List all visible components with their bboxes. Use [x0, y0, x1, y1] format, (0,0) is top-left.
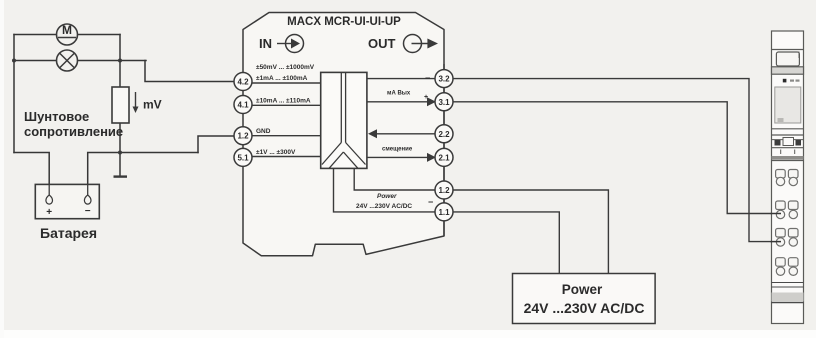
wire 4.2 to amp [252, 82, 321, 84]
terminal 1.2 input GND [234, 127, 252, 145]
wire stub into module row3 [771, 241, 782, 243]
module terminal row 4 [776, 258, 798, 276]
svg-text:4.1: 4.1 [237, 101, 249, 110]
wire left rail [13, 35, 15, 153]
svg-text:24V ...230V AC/DC: 24V ...230V AC/DC [524, 300, 645, 316]
module terminal row 1 [776, 170, 798, 186]
svg-text:3.2: 3.2 [438, 75, 450, 84]
module terminal row 3 [776, 229, 798, 247]
motor M [57, 23, 78, 45]
wire shunt to junction [119, 123, 121, 153]
svg-text:Power: Power [562, 282, 603, 297]
wire battery minus branch [88, 153, 198, 185]
svg-text:OUT: OUT [368, 36, 396, 51]
svg-text:Батарея: Батарея [40, 225, 97, 241]
svg-text:Шунтовое: Шунтовое [24, 109, 89, 124]
mV arrow [133, 92, 162, 113]
svg-text:−: − [425, 73, 430, 83]
wire amp power to 1.2 [354, 168, 435, 190]
svg-text:2.1: 2.1 [438, 153, 450, 162]
lamp [57, 50, 78, 71]
node C junction shunt-battery [118, 151, 122, 155]
svg-text:IN: IN [259, 36, 272, 51]
terminal 3.1 [435, 93, 453, 111]
OUT symbol [368, 35, 438, 53]
wire 3.1 to module [453, 102, 781, 214]
svg-text:+: + [424, 94, 428, 101]
wire amp power to 1.1 [334, 168, 436, 212]
wire amp to 3.2 [367, 78, 435, 80]
svg-text:смещение: смещение [382, 147, 413, 153]
wire 2.2 to amp with arrow [368, 129, 435, 138]
terminal 2.2 [435, 125, 453, 143]
svg-text:4.2: 4.2 [237, 78, 249, 87]
svg-text:5.1: 5.1 [237, 153, 249, 162]
wire stub into module row2 [771, 213, 782, 215]
wire 3.2 to module [453, 79, 781, 242]
svg-text:±1mA ... ±100mA: ±1mA ... ±100mA [256, 75, 308, 82]
node A junction lamp-rail [12, 59, 16, 63]
terminal 2.1 [435, 148, 453, 166]
wire 4.1 to amp [252, 104, 321, 106]
svg-text:сопротивление: сопротивление [24, 124, 123, 139]
wire vertical to shunt [119, 35, 121, 88]
LED dot on module [783, 79, 787, 83]
module foot [772, 283, 804, 303]
wire amp to 3.1 with arrow [367, 94, 436, 106]
wire motor top line [14, 34, 120, 36]
svg-text:−: − [85, 206, 91, 217]
wire GND to amp [252, 135, 321, 137]
terminal 5.1 [234, 148, 252, 166]
svg-text:±50mV ... ±1000mV: ±50mV ... ±1000mV [256, 64, 315, 71]
svg-text:1.2: 1.2 [237, 132, 249, 141]
power supply box [513, 274, 656, 324]
svg-text:Power: Power [377, 193, 397, 200]
ground bar [114, 175, 128, 177]
svg-text:1.1: 1.1 [438, 208, 450, 217]
svg-text:24V ...230V AC/DC: 24V ...230V AC/DC [356, 203, 412, 210]
svg-text:±10mA ... ±110mA: ±10mA ... ±110mA [256, 98, 311, 105]
node B junction lamp-shunt [118, 59, 122, 63]
DIN module side view [772, 31, 804, 324]
terminal 1.2 power [435, 181, 453, 199]
terminal 4.1 [234, 96, 252, 114]
svg-text:мА Вых: мА Вых [387, 91, 411, 97]
device outline MACX module [243, 13, 444, 256]
wire battery plus branch [14, 153, 49, 185]
wire lamp to terminal 4.2 [145, 61, 235, 82]
wire amp to 2.1 with arrow [367, 153, 436, 162]
wire 1.2 to power supply [453, 190, 608, 274]
terminal 4.2 [234, 73, 252, 91]
svg-text:GND: GND [256, 128, 271, 135]
wire 1.1 to power supply [453, 212, 559, 274]
IN symbol [259, 35, 304, 53]
wire up to GND terminal [198, 136, 235, 153]
svg-text:MACX MCR-UI-UI-UP: MACX MCR-UI-UI-UP [287, 16, 401, 28]
svg-text:±1V ... ±300V: ±1V ... ±300V [256, 149, 296, 156]
op-amp U1 isolation amplifier [321, 72, 367, 168]
svg-text:2.2: 2.2 [438, 130, 450, 139]
svg-text:mV: mV [143, 98, 162, 112]
wire 5.1 to amp [252, 156, 321, 158]
wire lamp line [14, 60, 146, 62]
module terminal row 2 [776, 201, 798, 219]
svg-text:M: M [62, 23, 72, 37]
terminal 1.1 power [435, 203, 453, 221]
svg-text:−: − [428, 197, 433, 207]
svg-text:1.2: 1.2 [438, 186, 450, 195]
terminal 3.2 [435, 70, 453, 88]
svg-text:+: + [46, 207, 52, 218]
resistor shunt [112, 87, 129, 123]
battery [35, 184, 99, 218]
ground [119, 153, 121, 176]
svg-text:3.1: 3.1 [438, 98, 450, 107]
wire right terminal rail [443, 64, 445, 236]
